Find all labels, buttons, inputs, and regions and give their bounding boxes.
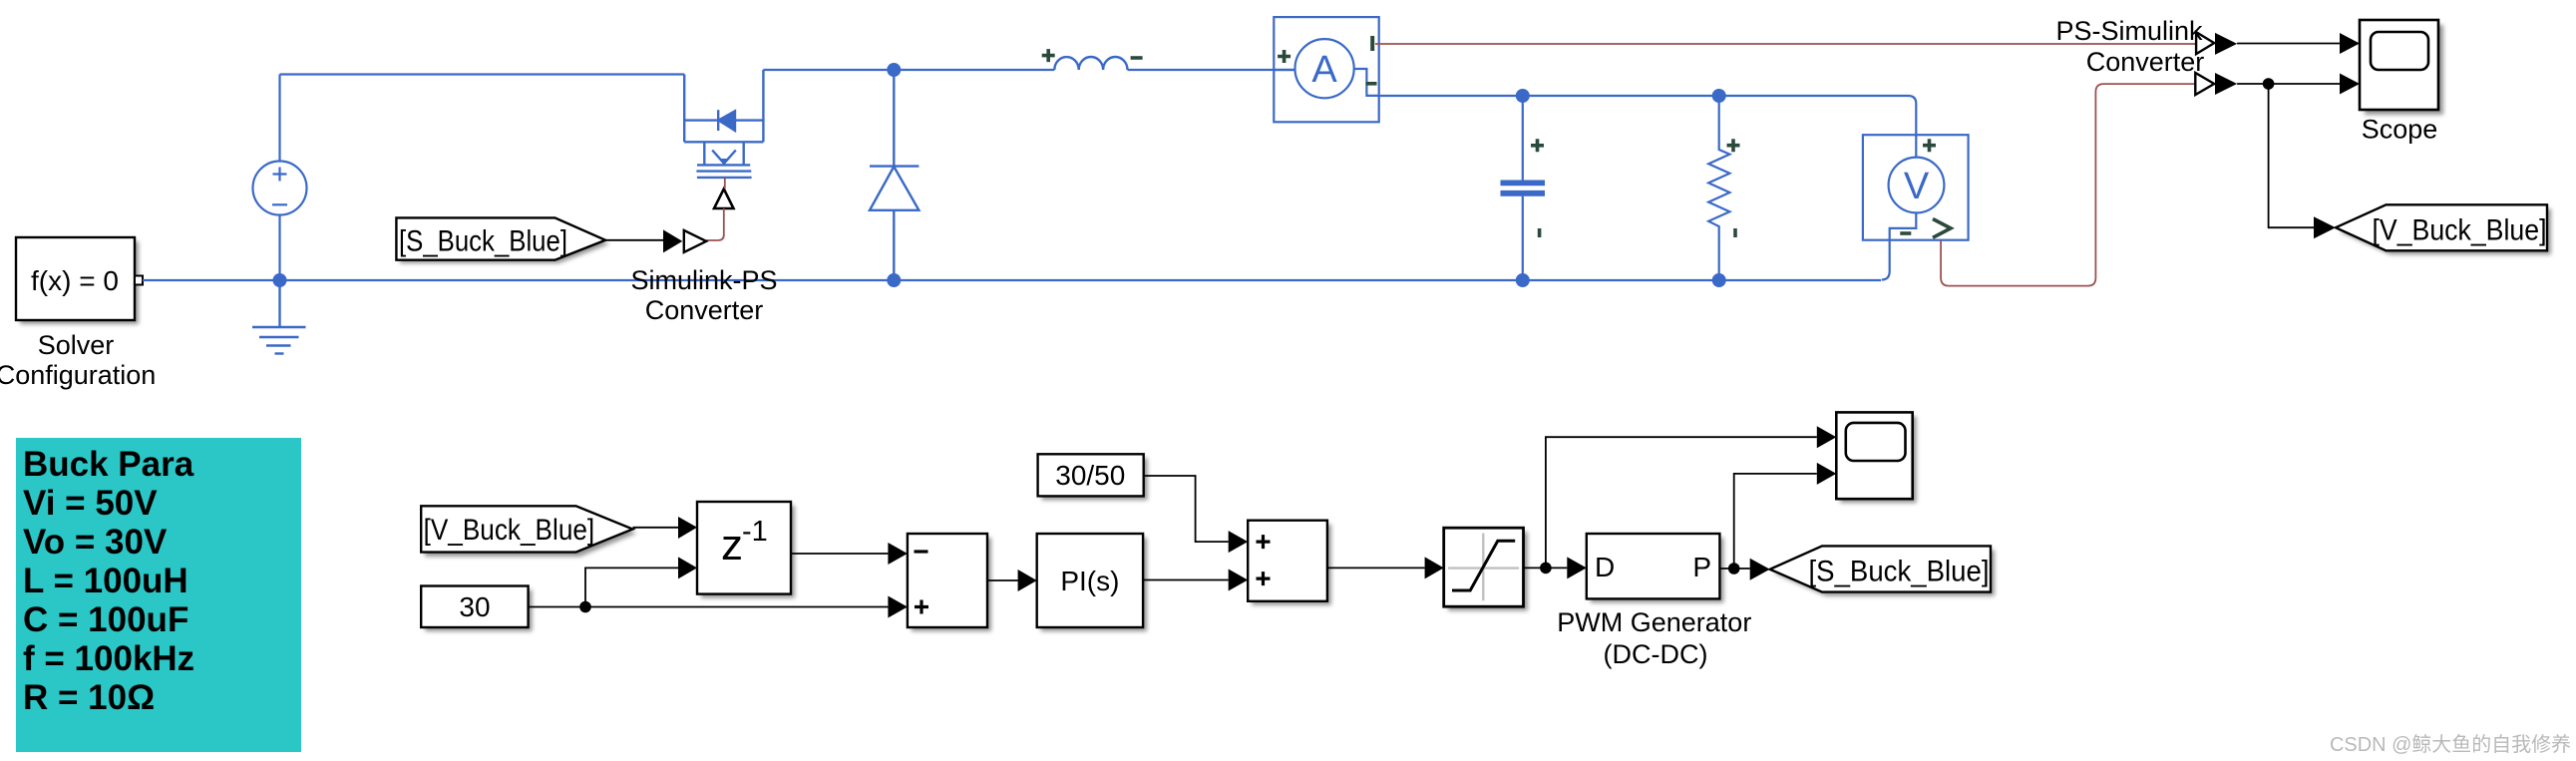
label minus of voltmeter [1900, 231, 1911, 235]
node ground junction dot [273, 273, 287, 287]
node pwm branch junction dot [1728, 563, 1740, 574]
BOTTOMCTRL [16, 412, 1995, 752]
node resistor bottom junction dot [1712, 273, 1726, 287]
block Solver Configuration [16, 237, 139, 324]
block constant 30 [421, 586, 532, 632]
wire mosfet to ammeter top rail [763, 69, 1294, 71]
wire constant 30 to subtract [529, 606, 889, 608]
goto tag [V_Buck_Blue] [2336, 204, 2551, 254]
gate port triangle of mosfet [714, 189, 734, 208]
node capacitor top junction dot [1516, 89, 1530, 103]
annotation Buck Para [16, 438, 301, 752]
wire converter to scope input 2 [2237, 83, 2340, 85]
svg-text:L = 100uH: L = 100uH [23, 562, 188, 600]
node capacitor bottom junction dot [1516, 273, 1530, 287]
wire subtract to PI [987, 579, 1018, 581]
svg-text:V: V [1904, 166, 1930, 207]
arrow saturation input [1425, 557, 1444, 578]
wire red ammeter I to ps-simulink converter [1375, 43, 2196, 45]
arrow goto tag V_Buck_Blue [2314, 216, 2336, 238]
label minus of resistor [1733, 228, 1737, 237]
ps-simulink converter U3 (voltage) [2195, 73, 2237, 95]
svg-text:Converter: Converter [2086, 47, 2205, 77]
svg-text:[S_Buck_Blue]: [S_Buck_Blue] [399, 225, 567, 258]
svg-text:-1: -1 [742, 516, 768, 548]
arrow unit delay input 2 [678, 557, 697, 578]
block constant 30/50 [1038, 454, 1148, 500]
arrow scope input 2 [2340, 74, 2360, 95]
label minus of inductor [1131, 56, 1143, 60]
svg-text:Simulink-PS: Simulink-PS [630, 265, 777, 295]
resistor R1 [1708, 96, 1729, 280]
svg-text:R = 10Ω: R = 10Ω [23, 678, 155, 717]
simulink-ps converter U1 [663, 229, 706, 252]
mosfet Q1 [684, 70, 763, 178]
wire unit delay to subtract [791, 553, 888, 555]
svg-text:f = 100kHz: f = 100kHz [23, 639, 194, 678]
label I port of ammeter [1370, 36, 1374, 51]
wire ammeter out rail [1379, 96, 1917, 158]
block PI(s) [1037, 534, 1147, 631]
arrow pwm input [1567, 557, 1587, 578]
node resistor top junction dot [1712, 89, 1726, 103]
wire red voltmeter to ps-simulink converter [1941, 84, 2195, 286]
svg-text:(DC-DC): (DC-DC) [1604, 639, 1708, 669]
svg-text:PWM Generator: PWM Generator [1557, 607, 1751, 637]
TOPCIRCUIT [0, 16, 2551, 390]
ground [252, 280, 306, 354]
label output chevron of voltmeter [1933, 219, 1951, 238]
node constant branch junction dot [579, 601, 591, 613]
arrow scope2 input 2 [1817, 463, 1837, 485]
arrow unit delay input 1 [678, 517, 697, 539]
wire pwm branch to scope2 input 2 [1734, 474, 1817, 569]
label PS-Simulink Converter [2055, 16, 2204, 77]
label plus of voltmeter [1923, 139, 1936, 152]
wire PI to add [1143, 579, 1229, 581]
svg-text:Configuration: Configuration [0, 360, 156, 390]
node mosfet-diode top junction dot [887, 63, 901, 77]
capacitor C1 [1501, 96, 1546, 280]
voltmeter block [1863, 135, 1969, 279]
block saturation [1444, 528, 1528, 610]
wire add to saturation [1327, 567, 1425, 569]
block unit delay z-1 [697, 502, 795, 598]
arrow add input 2 [1229, 570, 1249, 591]
svg-text:A: A [1311, 49, 1337, 91]
svg-text:PI(s): PI(s) [1060, 566, 1119, 596]
arrow PI input [1018, 570, 1037, 591]
wire pwm to goto tag [1719, 568, 1749, 570]
arrow scope input 1 [2340, 33, 2360, 54]
wire red gate connection [706, 178, 725, 240]
inductor L1 [1054, 57, 1127, 70]
svg-text:f(x) = 0: f(x) = 0 [31, 265, 119, 296]
wire source top to mosfet [280, 73, 685, 75]
arrow scope2 input 1 [1817, 426, 1837, 448]
label minus of capacitor [1538, 228, 1542, 237]
arrow subtract input 1 [888, 543, 908, 565]
block add [1248, 521, 1331, 605]
svg-text:Solver: Solver [38, 330, 115, 360]
svg-text:30/50: 30/50 [1055, 460, 1125, 491]
wire saturation to pwm [1524, 567, 1568, 569]
svg-text:C = 100uF: C = 100uF [23, 600, 188, 639]
svg-text:Scope: Scope [2362, 115, 2438, 145]
port square of Solver Configuration [135, 276, 143, 285]
block PWM Generator [1587, 534, 1724, 602]
svg-text:[V_Buck_Blue]: [V_Buck_Blue] [2373, 214, 2547, 247]
wire from-tag to converter [605, 239, 663, 241]
label plus of inductor [1042, 49, 1055, 62]
wire constant branch to unit delay input 2 [585, 568, 678, 606]
svg-text:30: 30 [459, 591, 490, 622]
svg-text:Vo = 30V: Vo = 30V [23, 523, 168, 562]
diode D1 [870, 70, 919, 280]
svg-text:Vi = 50V: Vi = 50V [23, 484, 158, 523]
arrow subtract input 2 [888, 596, 908, 618]
node diode bottom junction dot [887, 273, 901, 287]
block Scope [2360, 20, 2443, 115]
wire converter to scope input 1 [2237, 43, 2340, 45]
ammeter block [1274, 17, 1378, 122]
svg-text:PS-Simulink: PS-Simulink [2055, 16, 2203, 46]
arrow add input 1 [1229, 531, 1249, 553]
label plus of resistor [1727, 139, 1740, 152]
wire constant 30/50 to add [1144, 476, 1229, 542]
node saturation branch junction dot [1540, 563, 1552, 574]
svg-text:P: P [1692, 552, 1711, 582]
label Simulink-PS Converter [630, 265, 777, 325]
wire from-tag to unit delay [633, 527, 679, 529]
svg-text:CSDN @鲸大鱼的自我修养: CSDN @鲸大鱼的自我修养 [2330, 733, 2571, 756]
label PWM Generator (DC-DC) [1557, 607, 1751, 669]
ps-simulink converter U2 (current) [2196, 32, 2237, 55]
wire junction to goto tag [2269, 84, 2314, 227]
goto tag [S_Buck_Blue] [1770, 546, 1995, 595]
svg-text:[S_Buck_Blue]: [S_Buck_Blue] [1809, 555, 1990, 587]
node goto branch junction dot [2263, 78, 2275, 90]
block Scope2 [1836, 412, 1916, 503]
svg-text:z: z [721, 521, 743, 570]
svg-text:Converter: Converter [645, 295, 764, 325]
wire solver to ground node [143, 279, 1881, 281]
wire saturation branch to scope2 input 1 [1546, 437, 1817, 568]
label Solver Configuration [0, 330, 156, 390]
svg-text:Buck Para: Buck Para [23, 445, 194, 484]
voltage source V1 [253, 75, 307, 281]
block subtract [908, 534, 991, 631]
label plus of capacitor [1531, 139, 1544, 152]
from tag [S_Buck_Blue] [396, 217, 609, 263]
svg-text:[V_Buck_Blue]: [V_Buck_Blue] [424, 514, 595, 547]
svg-text:D: D [1595, 552, 1615, 582]
from tag [V_Buck_Blue] [421, 506, 636, 557]
label minus of ammeter [1366, 82, 1377, 86]
arrow goto tag S_Buck_Blue [1750, 559, 1770, 580]
label plus of ammeter [1278, 50, 1290, 63]
